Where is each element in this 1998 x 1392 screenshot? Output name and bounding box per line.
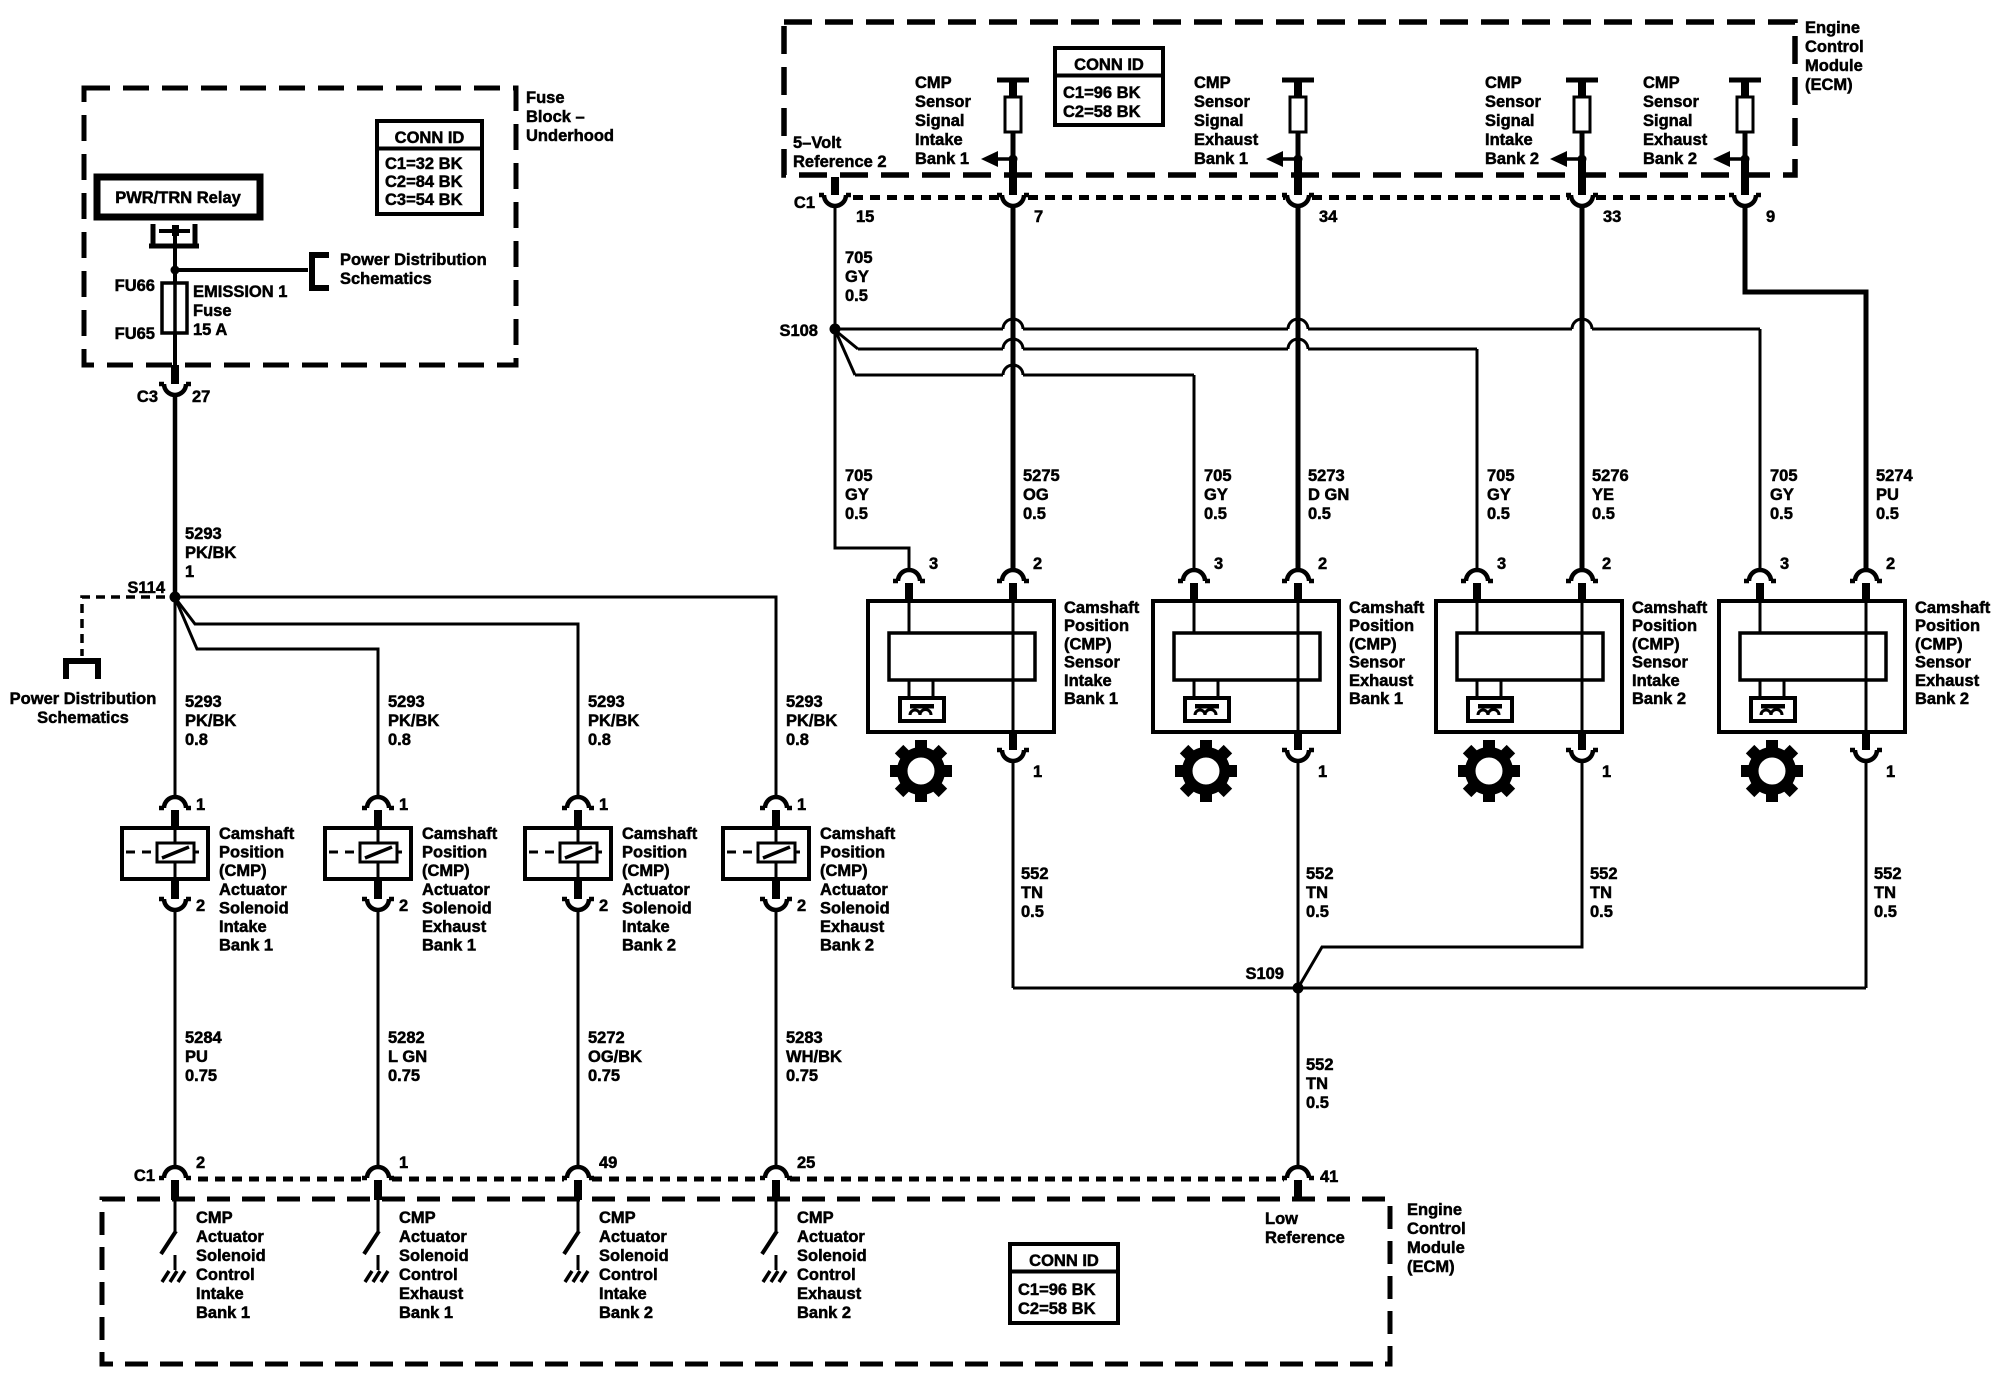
sensor S3 pin 3 connector xyxy=(1461,570,1493,581)
connector C3 pin 27 stub xyxy=(171,365,179,384)
svg-text:0.5: 0.5 xyxy=(1592,505,1615,523)
svg-text:5293: 5293 xyxy=(388,693,425,711)
svg-text:1: 1 xyxy=(599,796,608,814)
wire S108 rail to sensor 4 pin 3 xyxy=(835,319,1760,329)
svg-text:YE: YE xyxy=(1592,486,1614,504)
wire sensor S4 pin 1 to S109 rail xyxy=(1865,763,1868,988)
ECM bottom connector line C1 (dotted) xyxy=(198,1177,1284,1182)
ECM driver switch for pin 25 xyxy=(775,1200,778,1231)
svg-text:15: 15 xyxy=(856,208,874,226)
sensor S2 pin 3 connector xyxy=(1178,570,1210,581)
svg-text:Reference: Reference xyxy=(1265,1229,1345,1247)
actuator A3 solenoid coil (rect with slash) xyxy=(560,843,597,862)
svg-text:Sensor: Sensor xyxy=(1194,93,1251,111)
S109 rail xyxy=(1013,987,1866,990)
svg-text:GY: GY xyxy=(1770,486,1794,504)
ECM driver switch for pin 1 xyxy=(377,1200,380,1231)
sensor S1 pin 3 stub xyxy=(905,583,913,601)
svg-text:C3=54 BK: C3=54 BK xyxy=(385,191,463,209)
svg-text:Control: Control xyxy=(1407,1220,1466,1238)
junction dot (relay output) xyxy=(171,266,180,275)
svg-text:Solenoid: Solenoid xyxy=(820,899,890,917)
svg-text:Fuse: Fuse xyxy=(193,302,232,320)
svg-text:5276: 5276 xyxy=(1592,467,1629,485)
actuator A1 CMP actuator solenoid box xyxy=(122,828,208,879)
svg-text:1: 1 xyxy=(399,796,408,814)
svg-text:(CMP): (CMP) xyxy=(1915,635,1963,653)
svg-text:TN: TN xyxy=(1306,884,1328,902)
svg-text:Exhaust: Exhaust xyxy=(1915,672,1980,690)
svg-text:0.5: 0.5 xyxy=(1487,505,1510,523)
svg-text:552: 552 xyxy=(1306,1056,1334,1074)
svg-text:Camshaft: Camshaft xyxy=(1915,599,1991,617)
svg-text:(CMP): (CMP) xyxy=(1349,635,1397,653)
svg-text:Actuator: Actuator xyxy=(797,1228,865,1246)
svg-text:Engine: Engine xyxy=(1805,19,1860,37)
svg-text:Actuator: Actuator xyxy=(399,1228,467,1246)
ECM pin 49 stub xyxy=(574,1180,582,1200)
svg-text:1: 1 xyxy=(1033,763,1042,781)
svg-text:CMP: CMP xyxy=(1643,74,1680,92)
svg-text:552: 552 xyxy=(1874,865,1902,883)
actuator A2 internal wire top xyxy=(377,830,380,843)
sensor S4 element (inner rect) xyxy=(1740,633,1886,680)
svg-text:552: 552 xyxy=(1590,865,1618,883)
sensor S3 pin 2 connector xyxy=(1566,570,1598,581)
svg-text:0.5: 0.5 xyxy=(1590,903,1613,921)
sensor S1 hall element icon xyxy=(900,698,944,721)
svg-text:Intake: Intake xyxy=(1064,672,1112,690)
actuator A1 pin 2 connector xyxy=(159,899,191,910)
svg-text:GY: GY xyxy=(845,268,869,286)
svg-text:Exhaust: Exhaust xyxy=(797,1285,862,1303)
svg-text:5284: 5284 xyxy=(185,1029,223,1047)
svg-text:Sensor: Sensor xyxy=(1632,654,1689,672)
svg-text:1: 1 xyxy=(185,563,194,581)
svg-text:(ECM): (ECM) xyxy=(1805,76,1853,94)
svg-text:PK/BK: PK/BK xyxy=(185,712,236,730)
svg-text:C3: C3 xyxy=(137,388,158,406)
svg-text:Sensor: Sensor xyxy=(1485,93,1542,111)
svg-text:PWR/TRN Relay: PWR/TRN Relay xyxy=(115,189,241,207)
svg-text:0.5: 0.5 xyxy=(1306,903,1329,921)
svg-text:OG/BK: OG/BK xyxy=(588,1048,642,1066)
svg-text:Position: Position xyxy=(1349,617,1414,635)
svg-text:(CMP): (CMP) xyxy=(622,862,670,880)
actuator A4 internal wire top xyxy=(775,830,778,843)
svg-text:Intake: Intake xyxy=(196,1285,244,1303)
svg-text:GY: GY xyxy=(845,486,869,504)
svg-text:705: 705 xyxy=(845,467,873,485)
wire S108 to sensor 1 pin 3 xyxy=(835,329,909,570)
svg-text:Reference 2: Reference 2 xyxy=(793,153,887,171)
svg-text:Solenoid: Solenoid xyxy=(622,899,692,917)
sensor S3 reluctor gear icon xyxy=(1458,740,1520,802)
svg-text:CMP: CMP xyxy=(599,1209,636,1227)
sensor S4 pin 3 connector xyxy=(1744,570,1776,581)
wire 552 TN 0.5 (S109 to ECM pin 41) xyxy=(1297,988,1300,1167)
svg-text:D GN: D GN xyxy=(1308,486,1349,504)
svg-text:CMP: CMP xyxy=(196,1209,233,1227)
svg-text:Bank 2: Bank 2 xyxy=(820,937,874,955)
svg-text:Control: Control xyxy=(797,1266,856,1284)
sensor S1 pin 1 connector xyxy=(997,750,1029,761)
svg-text:Position: Position xyxy=(820,844,885,862)
svg-text:9: 9 xyxy=(1766,208,1775,226)
actuator A2 CMP actuator solenoid box xyxy=(325,828,411,879)
svg-text:Intake: Intake xyxy=(1632,672,1680,690)
svg-text:CMP: CMP xyxy=(1194,74,1231,92)
splice S108 xyxy=(830,324,841,335)
sensor S2 pin 3 stub xyxy=(1190,583,1198,601)
svg-text:552: 552 xyxy=(1021,865,1049,883)
svg-text:3: 3 xyxy=(1214,555,1223,573)
svg-text:Camshaft: Camshaft xyxy=(1632,599,1708,617)
sensor S4 hall element icon xyxy=(1751,698,1795,721)
svg-text:Camshaft: Camshaft xyxy=(1064,599,1140,617)
actuator A2 pin 2 stub xyxy=(374,879,382,899)
actuator A4 pin 2 connector xyxy=(760,899,792,910)
svg-text:1: 1 xyxy=(399,1154,408,1172)
svg-text:CONN ID: CONN ID xyxy=(1074,56,1144,74)
svg-text:33: 33 xyxy=(1603,208,1621,226)
svg-text:Solenoid: Solenoid xyxy=(422,899,492,917)
ECM internal resistor R2 xyxy=(1290,97,1306,132)
sensor S4 CMP sensor box xyxy=(1719,601,1905,732)
actuator A4 pin 1 connector xyxy=(760,797,792,808)
sensor S3 pin 1 connector xyxy=(1566,750,1598,761)
signal arrow R3 xyxy=(1567,157,1582,161)
svg-text:PK/BK: PK/BK xyxy=(588,712,639,730)
svg-text:0.5: 0.5 xyxy=(1021,903,1044,921)
sensor S3 pin 1 stub xyxy=(1578,733,1586,750)
svg-text:Position: Position xyxy=(622,844,687,862)
actuator A2 solenoid dashed link xyxy=(329,851,407,854)
sensor S2 element (inner rect) xyxy=(1174,633,1320,680)
svg-text:(ECM): (ECM) xyxy=(1407,1258,1455,1276)
svg-text:5293: 5293 xyxy=(786,693,823,711)
signal arrow R4 xyxy=(1730,157,1745,161)
svg-text:Actuator: Actuator xyxy=(422,881,490,899)
svg-text:0.8: 0.8 xyxy=(786,731,809,749)
ECM pin 49 connector xyxy=(562,1167,594,1178)
svg-text:Signal: Signal xyxy=(915,112,965,130)
actuator A4 pin 1 stub xyxy=(772,810,780,827)
wire S108 rail to sensor 3 pin 3 xyxy=(836,331,858,349)
actuator A1 solenoid dashed link xyxy=(126,851,204,854)
svg-text:TN: TN xyxy=(1021,884,1043,902)
wire fuse to fuse-block border xyxy=(173,333,177,365)
svg-text:705: 705 xyxy=(1770,467,1798,485)
actuator A2 pin 1 stub xyxy=(374,810,382,827)
sensor S1 pin 2 connector xyxy=(997,570,1029,581)
wire sensor S2 pin 1 to S109 xyxy=(1297,763,1300,988)
fuse FU66/FU65 EMISSION 1 15 A xyxy=(162,283,187,333)
wire actuator A2 to ECM pin xyxy=(377,912,380,1167)
svg-text:Position: Position xyxy=(422,844,487,862)
svg-text:1: 1 xyxy=(196,796,205,814)
actuator A4 CMP actuator solenoid box xyxy=(723,828,809,879)
wire 5275 OG 0.5 (pin 7 to sensor B1 intake pin 2) xyxy=(1011,208,1016,570)
svg-text:Bank 1: Bank 1 xyxy=(1194,150,1248,168)
svg-text:Bank 2: Bank 2 xyxy=(1643,150,1697,168)
svg-text:Intake: Intake xyxy=(219,918,267,936)
ECM top pin stub 2 xyxy=(1294,159,1302,195)
actuator A2 pin 1 connector xyxy=(362,797,394,808)
svg-text:(CMP): (CMP) xyxy=(1632,635,1680,653)
actuator A2 internal wire bottom xyxy=(377,862,380,877)
actuator A3 internal wire bottom xyxy=(577,862,580,877)
svg-text:3: 3 xyxy=(1497,555,1506,573)
svg-text:0.5: 0.5 xyxy=(1306,1094,1329,1112)
svg-text:TN: TN xyxy=(1874,884,1896,902)
svg-text:Camshaft: Camshaft xyxy=(1349,599,1425,617)
svg-text:PK/BK: PK/BK xyxy=(388,712,439,730)
svg-text:Bank 2: Bank 2 xyxy=(599,1304,653,1322)
svg-text:Bank 2: Bank 2 xyxy=(797,1304,851,1322)
svg-text:C1: C1 xyxy=(134,1167,155,1185)
bracket: to Power Distribution Schematics (bottom-left) xyxy=(66,661,98,679)
wire 705 GY 0.5 (pin 15 to S108) xyxy=(834,208,837,329)
actuator A3 internal wire top xyxy=(577,830,580,843)
svg-text:(CMP): (CMP) xyxy=(422,862,470,880)
svg-text:0.5: 0.5 xyxy=(1876,505,1899,523)
svg-text:0.8: 0.8 xyxy=(185,731,208,749)
svg-text:5274: 5274 xyxy=(1876,467,1914,485)
svg-text:0.8: 0.8 xyxy=(388,731,411,749)
svg-text:Bank 2: Bank 2 xyxy=(1632,690,1686,708)
wire junction to fuse xyxy=(173,270,177,284)
svg-text:OG: OG xyxy=(1023,486,1049,504)
relay contact symbol (connector bracket under relay) xyxy=(149,224,199,246)
wire resistor R4 to node xyxy=(1743,132,1748,159)
svg-text:Position: Position xyxy=(1064,617,1129,635)
svg-text:1: 1 xyxy=(1602,763,1611,781)
node dot R3 xyxy=(1578,155,1587,164)
svg-text:Power Distribution: Power Distribution xyxy=(340,251,487,269)
svg-text:34: 34 xyxy=(1319,208,1338,226)
svg-text:Actuator: Actuator xyxy=(820,881,888,899)
actuator A3 pin 1 stub xyxy=(574,810,582,827)
svg-text:Position: Position xyxy=(219,844,284,862)
svg-text:TN: TN xyxy=(1590,884,1612,902)
svg-text:5293: 5293 xyxy=(588,693,625,711)
sensor S4 pin 1 connector xyxy=(1850,750,1882,761)
ECM internal resistor R3 xyxy=(1574,97,1590,132)
sensor S3 hall element icon xyxy=(1468,698,1512,721)
svg-text:CMP: CMP xyxy=(1485,74,1522,92)
svg-text:705: 705 xyxy=(1204,467,1232,485)
svg-text:5283: 5283 xyxy=(786,1029,823,1047)
sensor S1 hall element stubs xyxy=(908,680,911,698)
svg-text:0.8: 0.8 xyxy=(588,731,611,749)
svg-text:CMP: CMP xyxy=(399,1209,436,1227)
fuse block - underhood (dashed enclosure) xyxy=(84,88,516,365)
svg-text:5293: 5293 xyxy=(185,525,222,543)
sensor S1 pin 1 stub xyxy=(1009,733,1017,750)
signal arrow R1 xyxy=(998,157,1013,161)
svg-text:Engine: Engine xyxy=(1407,1201,1462,1219)
svg-text:0.5: 0.5 xyxy=(845,505,868,523)
actuator A4 solenoid dashed link xyxy=(727,851,805,854)
sensor S1 pin 3 connector xyxy=(893,570,925,581)
svg-text:1: 1 xyxy=(1886,763,1895,781)
wire 5276 YE 0.5 (pin 33 to sensor B2 intake pin 2) xyxy=(1580,208,1585,570)
wire 5274 PU 0.5 (pin 9 to sensor B2 exhaust pin 2) xyxy=(1745,208,1866,570)
ECM internal pull-up resistor R2 (T-bar) xyxy=(1282,78,1314,83)
dashed wire S114 to power distribution bracket xyxy=(82,597,165,656)
ECM top pin stub 1 xyxy=(1009,159,1017,195)
svg-text:Exhaust: Exhaust xyxy=(1194,131,1259,149)
svg-text:(CMP): (CMP) xyxy=(219,862,267,880)
svg-text:Block –: Block – xyxy=(526,108,585,126)
svg-text:Camshaft: Camshaft xyxy=(622,825,698,843)
svg-text:5272: 5272 xyxy=(588,1029,625,1047)
actuator A1 internal wire bottom xyxy=(174,862,177,877)
svg-text:7: 7 xyxy=(1034,208,1043,226)
sensor S1 CMP sensor box xyxy=(868,601,1054,732)
svg-text:Actuator: Actuator xyxy=(622,881,690,899)
svg-text:PU: PU xyxy=(1876,486,1899,504)
ground symbol for pin 1 xyxy=(365,1271,388,1282)
svg-text:Fuse: Fuse xyxy=(526,89,565,107)
ECM internal resistor R4 xyxy=(1737,97,1753,132)
svg-text:Camshaft: Camshaft xyxy=(820,825,896,843)
svg-text:Bank 2: Bank 2 xyxy=(1485,150,1539,168)
sensor S2 pin 2 connector xyxy=(1282,570,1314,581)
sensor S2 CMP sensor box xyxy=(1153,601,1339,732)
wire sensor S3 pin 1 to S109 xyxy=(1298,763,1582,988)
svg-text:15 A: 15 A xyxy=(193,321,227,339)
svg-text:0.5: 0.5 xyxy=(1770,505,1793,523)
svg-text:(CMP): (CMP) xyxy=(820,862,868,880)
ground symbol for pin 49 xyxy=(565,1271,588,1282)
svg-text:Camshaft: Camshaft xyxy=(219,825,295,843)
svg-text:552: 552 xyxy=(1306,865,1334,883)
actuator A1 pin 1 connector xyxy=(159,797,191,808)
svg-text:0.5: 0.5 xyxy=(1204,505,1227,523)
sensor S4 pin 3 stub xyxy=(1756,583,1764,601)
svg-text:2: 2 xyxy=(1318,555,1327,573)
ECM pin 1 connector xyxy=(362,1167,394,1178)
ECM internal resistor R1 xyxy=(1005,97,1021,132)
CONN ID table (top ECM) xyxy=(1055,48,1163,125)
node dot R4 xyxy=(1741,155,1750,164)
svg-text:Underhood: Underhood xyxy=(526,127,614,145)
svg-text:2: 2 xyxy=(196,897,205,915)
svg-text:0.5: 0.5 xyxy=(845,287,868,305)
svg-text:FU65: FU65 xyxy=(115,325,155,343)
ECM driver switch for pin 2 xyxy=(174,1200,177,1231)
ECM top pin 15 stub xyxy=(831,177,839,195)
svg-text:705: 705 xyxy=(845,249,873,267)
svg-text:FU66: FU66 xyxy=(115,277,155,295)
relay box: PWR/TRN Relay xyxy=(97,177,260,217)
svg-text:S108: S108 xyxy=(779,322,818,340)
svg-text:Control: Control xyxy=(1805,38,1864,56)
svg-text:Power Distribution: Power Distribution xyxy=(10,690,157,708)
actuator A3 solenoid dashed link xyxy=(529,851,607,854)
actuator A3 CMP actuator solenoid box xyxy=(525,828,611,879)
wire branch S114 to actuator 1 xyxy=(174,597,177,797)
wire resistor R2 to node xyxy=(1296,132,1301,159)
svg-text:Position: Position xyxy=(1632,617,1697,635)
svg-text:Solenoid: Solenoid xyxy=(599,1247,669,1265)
svg-text:C1=96 BK: C1=96 BK xyxy=(1063,84,1141,102)
splice S109 xyxy=(1293,983,1304,994)
svg-text:Sensor: Sensor xyxy=(1349,654,1406,672)
svg-text:Control: Control xyxy=(196,1266,255,1284)
svg-text:CONN ID: CONN ID xyxy=(395,129,465,147)
svg-text:0.5: 0.5 xyxy=(1308,505,1331,523)
sensor S2 pin 2 stub xyxy=(1294,583,1302,601)
wire branch S114 to actuator 3 xyxy=(176,599,578,797)
ECM top pin 9 connector xyxy=(1729,195,1761,206)
svg-text:(CMP): (CMP) xyxy=(1064,635,1112,653)
connector C3 pin 27 cup xyxy=(159,384,191,395)
actuator A4 internal wire bottom xyxy=(775,862,778,877)
ECM internal pull-up resistor R1 (T-bar) xyxy=(997,78,1029,83)
sensor S2 reluctor gear icon xyxy=(1175,740,1237,802)
bracket: to Power Distribution Schematics (top) xyxy=(312,255,329,288)
wire resistor R1 to node xyxy=(1011,132,1016,159)
wire junction to power distribution bracket xyxy=(175,268,308,272)
node dot R2 xyxy=(1294,155,1303,164)
svg-text:Bank 1: Bank 1 xyxy=(196,1304,250,1322)
svg-text:Exhaust: Exhaust xyxy=(820,918,885,936)
svg-text:Exhaust: Exhaust xyxy=(1349,672,1414,690)
wire actuator A1 to ECM pin xyxy=(174,912,177,1167)
svg-text:0.5: 0.5 xyxy=(1023,505,1046,523)
wire relay to junction xyxy=(173,236,177,268)
svg-text:L GN: L GN xyxy=(388,1048,427,1066)
ECM top pin stub 4 xyxy=(1741,159,1749,195)
svg-text:0.75: 0.75 xyxy=(185,1067,217,1085)
svg-text:27: 27 xyxy=(192,388,210,406)
svg-text:Signal: Signal xyxy=(1485,112,1535,130)
wire sensor S1 pin 1 to S109 rail xyxy=(1012,763,1015,988)
actuator A3 pin 1 connector xyxy=(562,797,594,808)
svg-text:5275: 5275 xyxy=(1023,467,1060,485)
svg-text:0.5: 0.5 xyxy=(1874,903,1897,921)
svg-text:25: 25 xyxy=(797,1154,815,1172)
svg-text:41: 41 xyxy=(1320,1168,1338,1186)
sensor S1 internal wires xyxy=(908,603,911,633)
svg-text:0.75: 0.75 xyxy=(588,1067,620,1085)
sensor S3 internal wires xyxy=(1476,603,1479,633)
svg-text:Bank 1: Bank 1 xyxy=(422,937,476,955)
svg-text:Solenoid: Solenoid xyxy=(219,899,289,917)
svg-text:Actuator: Actuator xyxy=(599,1228,667,1246)
svg-text:Signal: Signal xyxy=(1194,112,1244,130)
svg-text:Actuator: Actuator xyxy=(219,881,287,899)
sensor S3 CMP sensor box xyxy=(1436,601,1622,732)
ECM pin 41 connector xyxy=(1282,1167,1314,1178)
sensor S2 internal wires xyxy=(1193,603,1196,633)
CONN ID table (bottom ECM) xyxy=(1010,1244,1118,1323)
sensor S1 reluctor gear icon xyxy=(890,740,952,802)
svg-text:C1=96 BK: C1=96 BK xyxy=(1018,1281,1096,1299)
svg-text:C2=58 BK: C2=58 BK xyxy=(1018,1300,1096,1318)
ECM pin 2 connector xyxy=(159,1167,191,1178)
sensor S4 hall element stubs xyxy=(1759,680,1762,698)
splice S114 xyxy=(170,592,181,603)
svg-text:2: 2 xyxy=(1886,555,1895,573)
ECM top connector line C1 (dotted) xyxy=(853,195,1731,200)
svg-text:2: 2 xyxy=(599,897,608,915)
svg-text:Bank 1: Bank 1 xyxy=(399,1304,453,1322)
svg-text:Module: Module xyxy=(1407,1239,1465,1257)
